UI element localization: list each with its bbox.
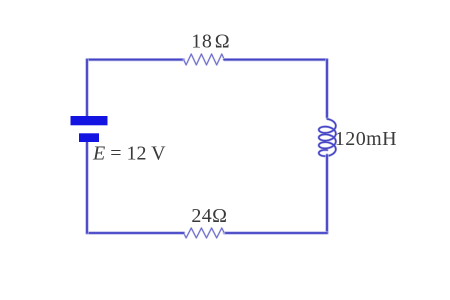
wire top-right segment <box>224 58 327 61</box>
wire bottom-right segment <box>224 231 327 234</box>
battery E plate long <box>71 116 108 125</box>
resistor R1 18 ohm zigzag <box>184 54 225 65</box>
wire left lower segment <box>85 142 88 233</box>
wire right lower segment <box>325 155 328 233</box>
inductor L1 coil 120mH <box>319 119 336 156</box>
resistor R2 24 ohm zigzag <box>184 228 225 238</box>
svg-text:120mH: 120mH <box>335 128 397 150</box>
wire right upper segment <box>325 60 328 118</box>
wire bottom-left segment <box>87 231 184 234</box>
svg-text:E = 12 V: E = 12 V <box>92 143 166 165</box>
svg-text:24Ω: 24Ω <box>191 205 227 227</box>
svg-text:18 Ω: 18 Ω <box>191 31 230 53</box>
wire left upper segment <box>85 60 88 116</box>
wire top-left segment <box>87 58 184 61</box>
battery E plate short <box>79 133 99 142</box>
